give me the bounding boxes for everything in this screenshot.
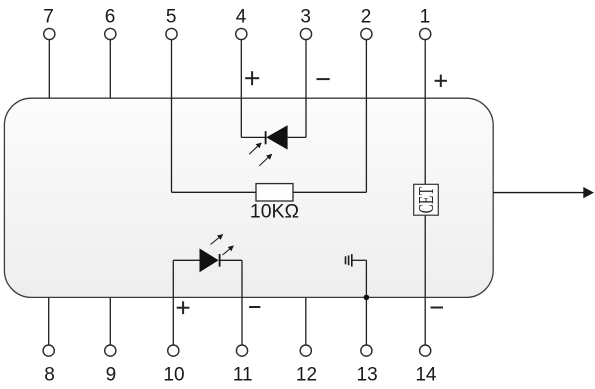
photodiode D1 (monitor PD) xyxy=(266,125,288,149)
svg-text:8: 8 xyxy=(44,365,55,386)
pin 1 terminal xyxy=(420,28,431,39)
photodiode incident light arrow 2 xyxy=(259,155,271,166)
pin 14 lead wire from TEC xyxy=(424,215,426,345)
svg-text:E: E xyxy=(414,196,438,204)
pin 1 lead wire to TEC xyxy=(424,40,426,185)
svg-text:7: 7 xyxy=(43,7,54,28)
pin 8 terminal xyxy=(43,345,54,356)
fiber output arrow xyxy=(493,187,594,198)
pin 6 terminal xyxy=(105,28,116,39)
svg-text:14: 14 xyxy=(415,365,437,386)
svg-text:5: 5 xyxy=(166,7,177,28)
pin 10 lead wire to laser anode xyxy=(172,260,174,345)
laser emitted light arrow 1 xyxy=(211,235,223,245)
svg-text:2: 2 xyxy=(361,7,372,28)
resistor R1 body xyxy=(256,184,293,201)
svg-text:6: 6 xyxy=(105,7,116,28)
package body (butterfly module outline) xyxy=(4,98,493,297)
wire resistor left segment xyxy=(172,191,257,193)
svg-text:11: 11 xyxy=(233,365,253,386)
polarity − at pin 14 xyxy=(431,307,444,309)
polarity − at pin 11 xyxy=(249,306,260,308)
pin 4 lead wire to photodiode cathode xyxy=(240,40,242,138)
laser emitted light arrow 2 xyxy=(223,246,234,255)
pin 13 terminal xyxy=(361,345,372,356)
wire photodiode left segment xyxy=(241,136,265,138)
pin 9 terminal xyxy=(105,345,116,356)
svg-text:C: C xyxy=(414,204,438,213)
pin 12 terminal xyxy=(300,345,311,356)
pin 14 terminal xyxy=(420,345,431,356)
wire laser left segment xyxy=(173,259,199,261)
pin 9 lead wire xyxy=(109,297,111,345)
junction node on pin 13 xyxy=(364,295,370,301)
pin 5 lead wire to resistor net xyxy=(171,40,173,193)
polarity − at pin 3 xyxy=(317,78,330,80)
pin 5 terminal xyxy=(166,28,177,39)
svg-text:3: 3 xyxy=(300,7,311,28)
polarity + at pin 10 xyxy=(177,301,190,314)
svg-text:4: 4 xyxy=(236,7,247,28)
pin 7 terminal xyxy=(44,28,55,39)
svg-text:12: 12 xyxy=(296,365,317,386)
pin 8 lead wire xyxy=(48,297,50,345)
svg-text:1: 1 xyxy=(420,7,431,28)
pin 4 terminal xyxy=(236,28,247,39)
wire case ground horizontal segment xyxy=(352,259,367,261)
pin 13 lead wire xyxy=(365,297,367,345)
svg-text:13: 13 xyxy=(357,365,378,386)
svg-text:9: 9 xyxy=(106,365,117,386)
pin 3 terminal xyxy=(300,28,311,39)
case ground symbol xyxy=(346,254,352,266)
pin 2 lead wire to resistor net xyxy=(365,40,367,193)
polarity + at pin 1 xyxy=(435,75,447,87)
pin 6 lead wire xyxy=(109,40,111,99)
pin 2 terminal xyxy=(361,28,372,39)
polarity + at pin 4 xyxy=(245,71,259,85)
wire laser right segment xyxy=(220,259,242,261)
TEC element U1 xyxy=(414,184,439,215)
svg-text:T: T xyxy=(414,187,438,195)
laser diode LD1 xyxy=(200,248,220,272)
pin 11 lead wire to laser cathode xyxy=(241,260,243,345)
pin 7 lead wire xyxy=(48,40,50,99)
photodiode incident light arrow 1 xyxy=(249,143,261,154)
pin 11 terminal xyxy=(236,345,247,356)
wire photodiode right segment xyxy=(288,136,306,138)
wire resistor right segment xyxy=(293,191,366,193)
wire case ground vertical segment xyxy=(365,260,367,297)
svg-text:10KΩ: 10KΩ xyxy=(250,201,299,223)
svg-text:10: 10 xyxy=(163,365,184,386)
pin 3 lead wire to photodiode anode xyxy=(305,40,307,138)
pin 10 terminal xyxy=(168,345,179,356)
pin 12 lead wire xyxy=(305,297,307,345)
